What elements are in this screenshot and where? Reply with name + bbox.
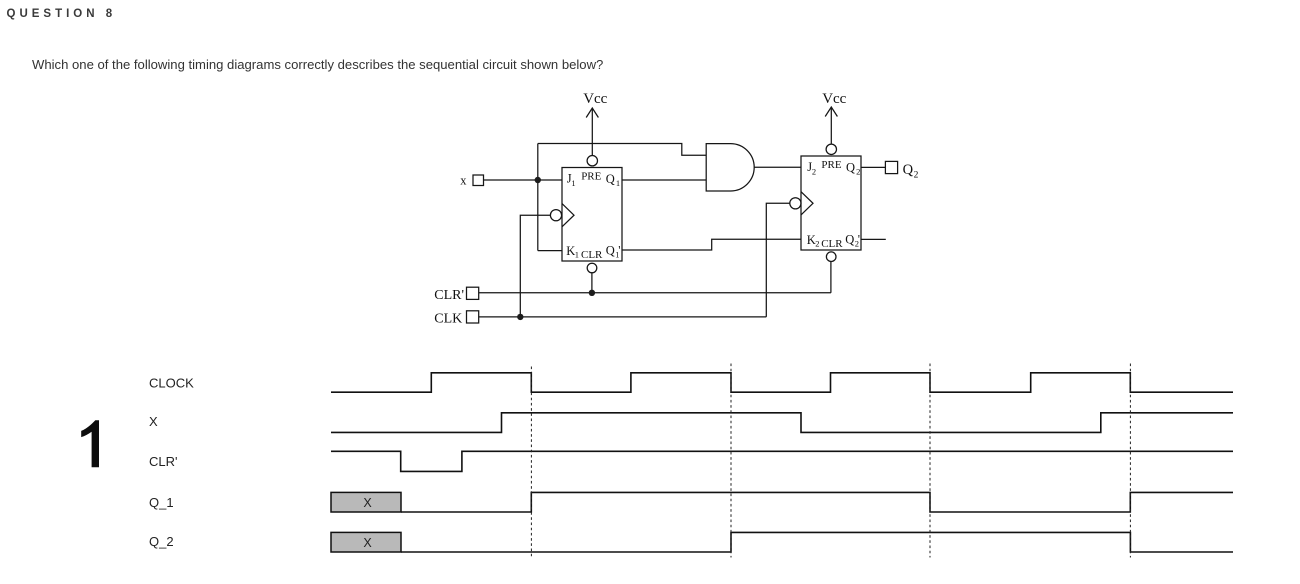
svg-text:Q2: Q2 <box>846 161 860 177</box>
svg-text:Q1: Q1 <box>606 172 620 188</box>
input terminal CLK <box>467 311 479 323</box>
svg-text:x: x <box>460 174 467 188</box>
flip-flop U2 clock wedge <box>801 192 813 215</box>
svg-text:CLR: CLR <box>821 238 843 250</box>
svg-text:CLR: CLR <box>581 249 603 261</box>
flip-flop U2 clock bubble <box>790 198 801 209</box>
flip-flop U1 clock bubble <box>550 210 561 221</box>
wire node x vertical <box>537 144 539 251</box>
svg-text:Q2': Q2' <box>845 233 860 249</box>
waveform CLOCK <box>331 373 1233 392</box>
marker dashed line t4 <box>1129 364 1131 558</box>
svg-text:K1: K1 <box>566 244 579 259</box>
svg-text:CLR': CLR' <box>434 288 464 303</box>
unknown region Q_1 <box>331 492 401 512</box>
AND gate G1 <box>706 144 754 191</box>
svg-text:Q1': Q1' <box>606 244 621 260</box>
svg-text:CLK: CLK <box>434 312 462 327</box>
wire Q1 to AND gate bottom input <box>622 179 706 181</box>
wire CLK to U1 clock <box>520 215 550 317</box>
wire Q1' to K2 <box>622 239 801 250</box>
junction node CLK <box>517 314 523 320</box>
svg-text:Q2: Q2 <box>903 162 919 180</box>
svg-text:PRE: PRE <box>821 159 841 171</box>
waveform X <box>331 413 1233 433</box>
svg-text:Vcc: Vcc <box>583 91 607 107</box>
svg-text:X: X <box>363 536 372 550</box>
svg-text:Q_1: Q_1 <box>149 495 174 510</box>
wire Q2' stub <box>861 238 886 240</box>
wire CLR bubble U1 drop <box>591 273 593 293</box>
waveform Q_1 <box>401 492 1233 512</box>
waveform Q_2 <box>401 532 1233 552</box>
svg-text:X: X <box>149 414 158 429</box>
flip-flop U2 box <box>801 156 861 250</box>
flip-flop U1 CLR bubble <box>587 263 597 273</box>
wire AND output to J2 <box>754 166 801 168</box>
flip-flop U2 PRE bubble <box>826 144 836 154</box>
flip-flop U1 box <box>562 168 622 262</box>
flip-flop U1 clock wedge <box>562 204 574 227</box>
wire Q2 output <box>861 166 885 168</box>
wire x to K1 <box>538 250 562 252</box>
wire CLR bubble U2 drop <box>830 262 832 293</box>
wire CLK horizontal <box>479 316 767 318</box>
svg-text:Vcc: Vcc <box>822 91 846 107</box>
junction node x <box>535 177 541 183</box>
wire CLK to U2 clock <box>766 203 790 317</box>
input terminal CLR' <box>467 287 479 299</box>
answer option number 1 <box>81 420 99 467</box>
marker dashed line t1 <box>530 367 532 558</box>
flip-flop U2 CLR bubble <box>826 252 836 262</box>
waveform CLR' <box>331 451 1233 471</box>
unknown region Q_2 <box>331 532 401 552</box>
wire CLR' horizontal <box>479 292 831 294</box>
wire x to J1 <box>484 179 563 181</box>
junction node CLR' <box>589 290 595 296</box>
output terminal Q2 <box>885 161 897 173</box>
input terminal x <box>473 175 484 186</box>
svg-text:PRE: PRE <box>581 171 601 183</box>
flip-flop U1 PRE bubble <box>587 156 597 166</box>
marker dashed line t2 <box>730 364 732 558</box>
svg-text:X: X <box>363 496 372 510</box>
svg-text:J1: J1 <box>567 172 576 188</box>
svg-text:CLOCK: CLOCK <box>149 376 194 391</box>
Vcc supply arrow U1 <box>586 108 598 155</box>
marker dashed line t3 <box>929 364 931 558</box>
wire x to AND gate top input <box>538 144 706 156</box>
svg-text:CLR': CLR' <box>149 454 178 469</box>
svg-text:K2: K2 <box>807 233 820 249</box>
svg-text:Q_2: Q_2 <box>149 534 174 549</box>
Vcc supply arrow U2 <box>825 107 837 144</box>
svg-text:J2: J2 <box>807 160 816 176</box>
